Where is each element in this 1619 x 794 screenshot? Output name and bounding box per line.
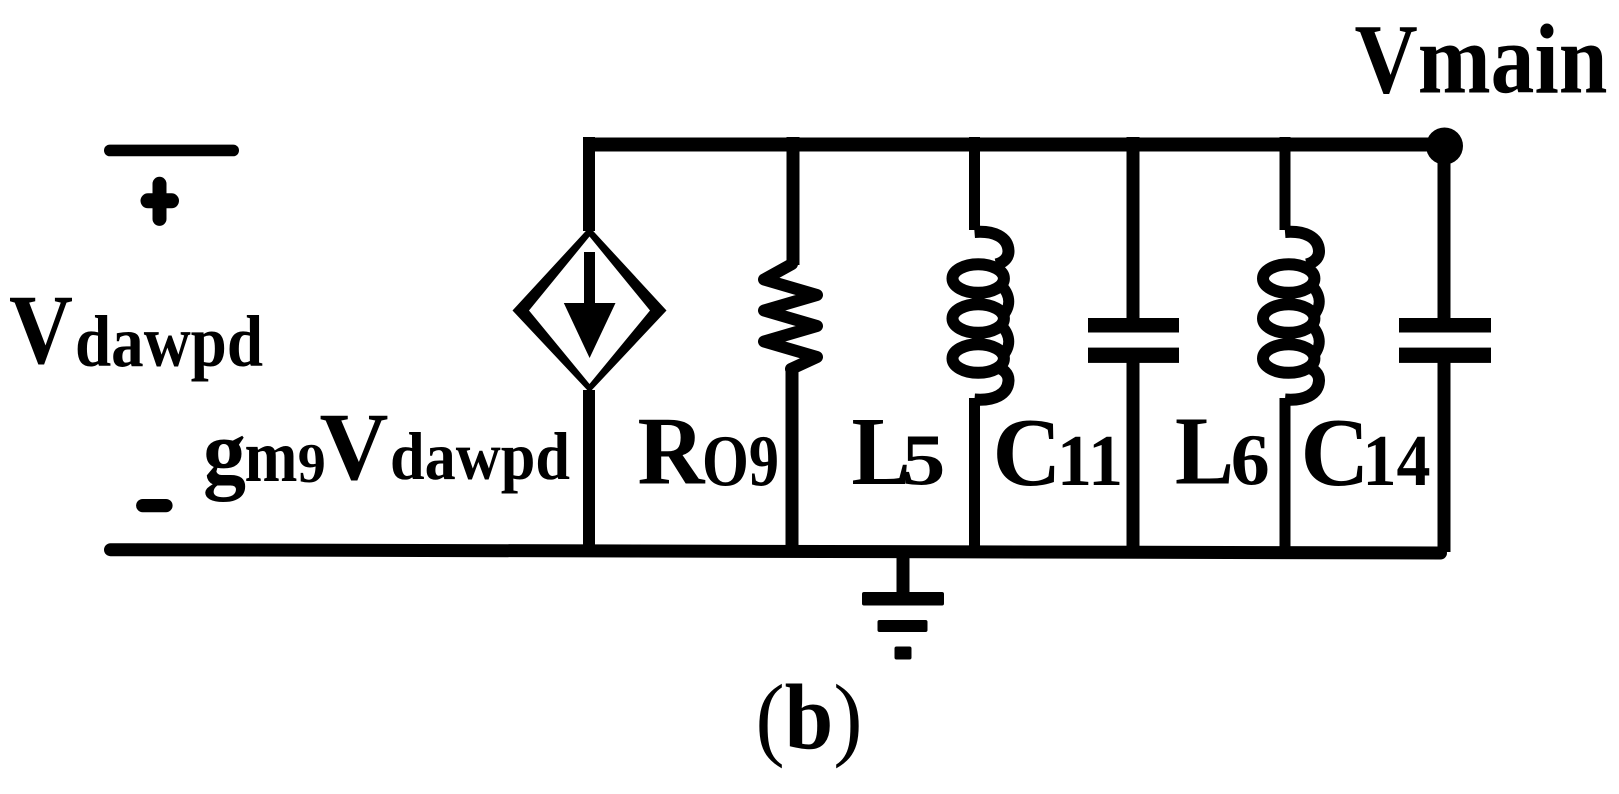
wire inductor L6 bottom lead (1280, 398, 1291, 552)
polarity plus sign (153, 184, 167, 219)
wire resistor top lead (787, 137, 800, 265)
svg-text:C: C (1301, 399, 1370, 507)
svg-text:(b): (b) (756, 667, 863, 770)
wire resistor bottom lead (786, 368, 799, 552)
wire bottom bus (111, 550, 1441, 553)
wire current source bottom lead (583, 390, 595, 552)
node Vmain junction dot (1426, 128, 1463, 165)
current source G1 diamond (513, 227, 667, 393)
inductor L6 coil (1263, 232, 1319, 400)
polarity plus bar (104, 145, 239, 157)
polarity minus sign (143, 499, 166, 512)
wire capacitor C14 bottom lead (1438, 362, 1451, 552)
svg-text:dawpd: dawpd (390, 418, 570, 494)
svg-text:5: 5 (902, 420, 946, 501)
svg-text:L: L (1175, 398, 1234, 505)
ground bar 3 (895, 647, 912, 660)
svg-text:V: V (320, 393, 389, 500)
wire inductor L5 bottom lead (969, 398, 980, 552)
wire current source top lead (583, 137, 595, 231)
svg-text:dawpd: dawpd (75, 301, 263, 382)
wire capacitor C14 top lead (1438, 144, 1451, 319)
capacitor C11 plates (1088, 318, 1179, 363)
svg-text:V: V (9, 274, 73, 385)
ground stem (897, 552, 910, 593)
ground bar 1 (862, 592, 944, 606)
svg-text:14: 14 (1363, 420, 1431, 501)
svg-text:g: g (203, 403, 246, 502)
wire inductor L5 top lead (969, 137, 980, 230)
wire inductor L6 top lead (1280, 137, 1291, 230)
ground bar 2 (878, 620, 928, 632)
wire capacitor C11 bottom lead (1127, 362, 1140, 552)
inductor L5 coil (953, 232, 1009, 400)
svg-text:Vmain: Vmain (1355, 4, 1608, 115)
current source arrow (564, 252, 616, 358)
svg-text:m: m (245, 416, 298, 498)
svg-text:11: 11 (1057, 420, 1123, 501)
svg-text:O9: O9 (702, 420, 779, 501)
wire top bus (583, 138, 1447, 152)
svg-text:R: R (638, 398, 706, 506)
resistor RO9 zigzag (764, 264, 817, 369)
wire capacitor C11 top lead (1127, 137, 1140, 319)
svg-text:6: 6 (1231, 419, 1270, 500)
capacitor C14 plates (1399, 318, 1491, 363)
svg-text:C: C (993, 399, 1062, 507)
